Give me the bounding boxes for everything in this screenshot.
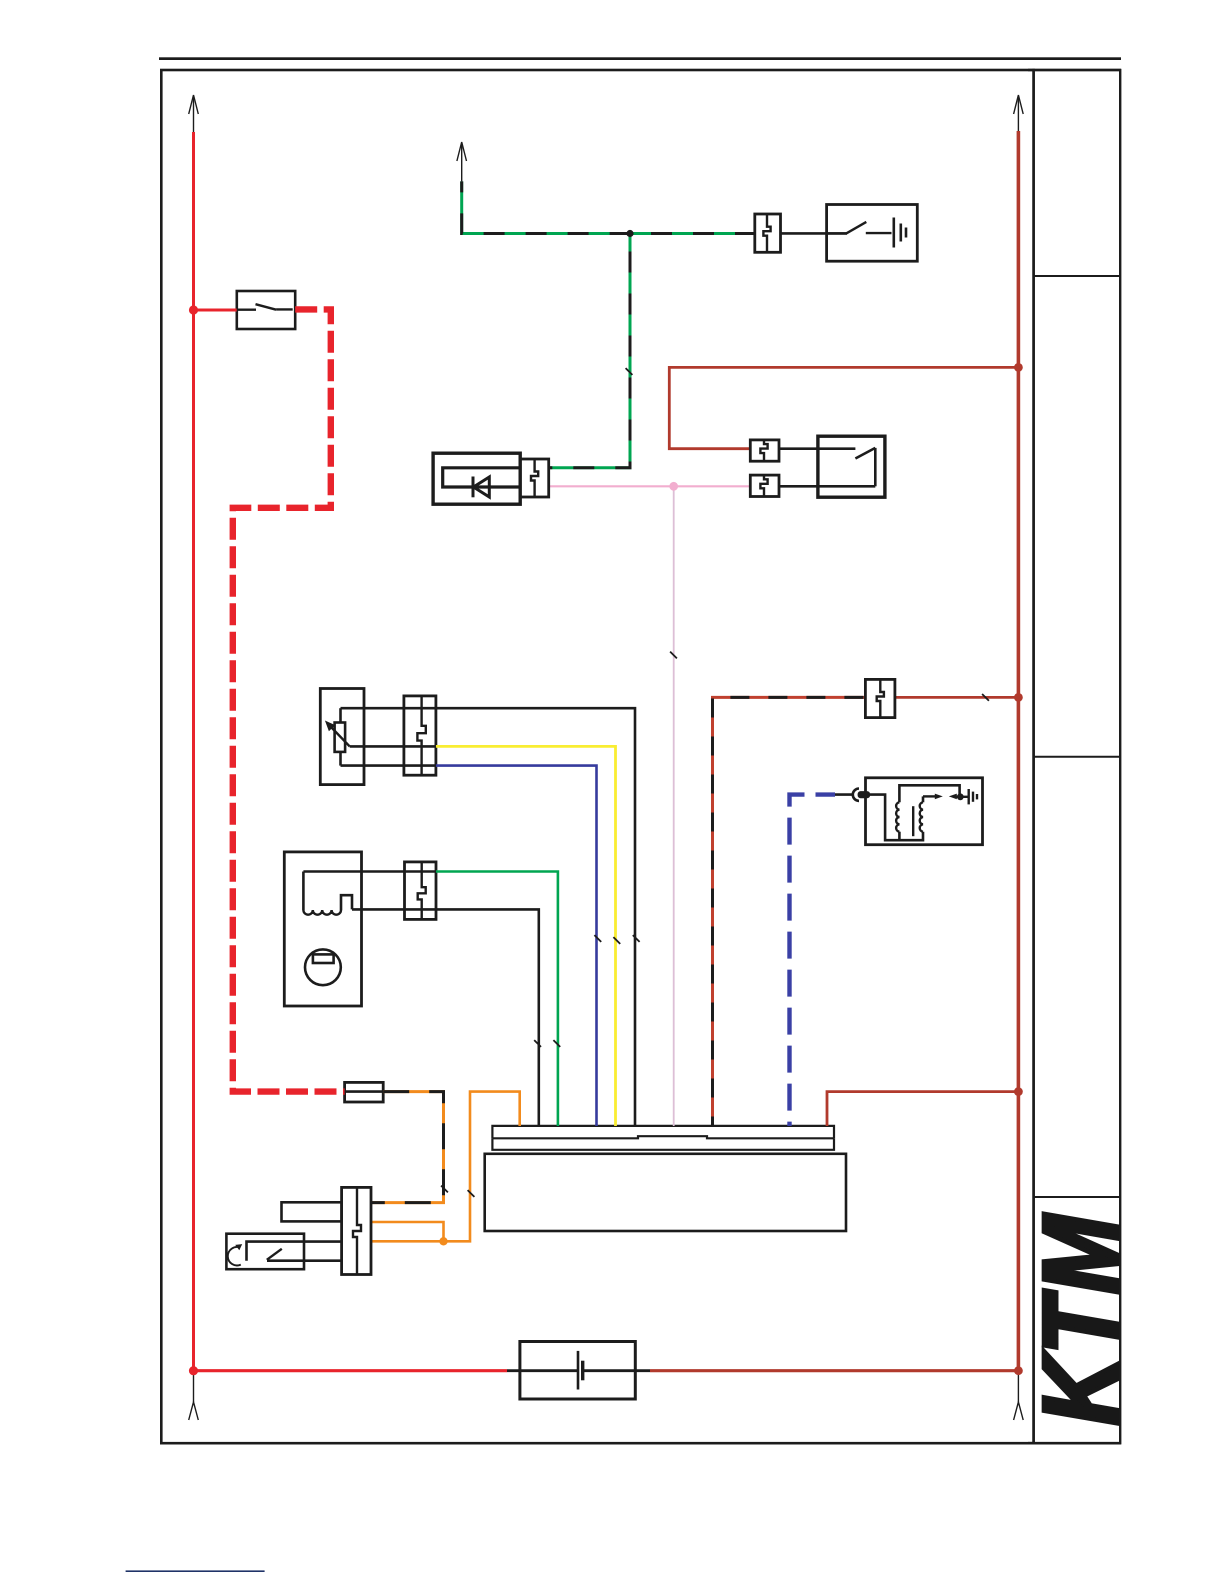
TPS wiper rail xyxy=(350,745,436,748)
wire: black stub start switch bottom xyxy=(779,485,875,488)
connector X-TPS (3 pin) xyxy=(404,696,436,775)
wire: green/black dashed from top arrow to node xyxy=(462,181,630,233)
wire: blue/white dashed ignition trigger xyxy=(790,795,836,1126)
arrow: harness continuation bottom-right xyxy=(1017,1375,1019,1402)
throttle position sensor box xyxy=(320,689,364,785)
node: red branch junction xyxy=(189,305,198,314)
wire: red branch to switch S1 xyxy=(194,309,237,312)
ignition coil top rail xyxy=(899,785,959,802)
wire: TPS pin2 yellow to ECU xyxy=(436,746,616,1126)
switch S1 box (top-left switch) xyxy=(237,291,295,329)
wire: black stub start switch top xyxy=(779,447,855,450)
connector X-pump (2 pin) xyxy=(405,862,437,920)
node: dark red junction 2 xyxy=(1014,693,1023,702)
wire: dark red feed to ECU power xyxy=(827,1092,1018,1126)
ignition coil primary path xyxy=(870,795,923,841)
wire: TPS pin3 blue to ECU xyxy=(436,766,597,1126)
pump motor symbol xyxy=(305,949,341,985)
TPS potentiometer xyxy=(339,708,342,722)
wire: dark red feed to start/stop switch xyxy=(669,367,1018,448)
wire: green/black dashed node to kill-switch connector xyxy=(630,232,755,235)
connector X-stand switch xyxy=(342,1187,371,1274)
TPS wiper arrow xyxy=(331,727,350,746)
arrow: harness continuation bottom-left xyxy=(193,1375,195,1402)
arrow: harness continuation top-right xyxy=(1014,95,1024,114)
wire: orange pin3 through junction to ECU xyxy=(371,1092,520,1242)
wire: battery positive red (bottom left) xyxy=(194,1369,508,1372)
switch S1 contacts xyxy=(237,309,256,311)
connector X-start bottom xyxy=(750,475,779,496)
stand switch actuation arrow xyxy=(228,1247,241,1265)
diode D1 internal loop xyxy=(443,468,521,487)
arrow: harness continuation top-left xyxy=(189,95,199,114)
wire: dark red main, right vertical xyxy=(1017,131,1021,1371)
ECU main body xyxy=(485,1154,846,1231)
wire: red supply, left vertical xyxy=(192,132,195,1371)
clutch/stand switch box (bottom-left) xyxy=(226,1234,304,1270)
sidebar title block xyxy=(1034,70,1121,1443)
wire: dark red feed at ignition node xyxy=(895,696,1019,699)
connector X-start top xyxy=(750,440,779,461)
node: green/black tee xyxy=(626,230,633,237)
ECU connector strip 1 xyxy=(492,1126,834,1138)
decorative footer line xyxy=(126,1570,265,1572)
wire: orange pin2 to junction xyxy=(371,1222,444,1241)
wire: TPS pin1 black to ECU xyxy=(341,708,636,1126)
diode D1 box xyxy=(433,453,520,504)
kill switch box with ground (top right) xyxy=(827,205,918,262)
start/stop switch contact xyxy=(855,448,875,459)
frame/sidebar top edge continuity xyxy=(1028,69,1121,72)
sidebar divider 1 xyxy=(1034,275,1121,277)
sidebar divider 2 xyxy=(1034,756,1121,758)
wire: green/black dashed node down to diode connector xyxy=(549,234,630,468)
start/stop switch box xyxy=(818,436,885,497)
spare terminal rectangle xyxy=(282,1202,342,1221)
KTM logo (rotated) xyxy=(1022,1212,1141,1425)
fuse F1 xyxy=(345,1082,384,1102)
wire: black through fuse to corner xyxy=(371,1092,444,1203)
node: dark red junction 3 xyxy=(1014,1087,1023,1096)
wire: battery stub black right xyxy=(583,1369,651,1372)
battery plates xyxy=(577,1351,580,1390)
connector X-diode xyxy=(521,459,549,497)
node: dark red junction 4 xyxy=(1014,1366,1023,1375)
node: pink tee xyxy=(669,482,678,491)
pump heater coil xyxy=(302,872,305,911)
coil windings xyxy=(896,802,899,831)
ignition coil: spark plug connector xyxy=(853,789,859,801)
ECU connector strip 2 with notch xyxy=(492,1136,834,1138)
wire: black stub to spark plug connector xyxy=(835,793,853,796)
wire: pink from diode connector to start switch connector xyxy=(549,485,751,487)
harness tick marks xyxy=(626,368,633,375)
arrow: harness continuation top-middle xyxy=(457,142,467,161)
sidebar divider 3 xyxy=(1034,1196,1121,1198)
wire: pump pin2 black to ECU xyxy=(352,909,539,1126)
border frame (drawing area) xyxy=(161,70,1033,1443)
spark gap arrows xyxy=(923,795,936,797)
wire: pump pin1 green to ECU xyxy=(303,870,436,873)
coil ground symbol xyxy=(960,796,968,798)
node: orange tee xyxy=(439,1237,447,1245)
svg-text:KTM: KTM xyxy=(1022,1212,1141,1425)
connector X-ignition xyxy=(865,679,895,717)
node: battery positive junction xyxy=(189,1366,198,1375)
diode symbol xyxy=(472,477,475,498)
wire: battery negative dark red (bottom right) xyxy=(650,1369,1018,1372)
stand switch internals xyxy=(247,1242,342,1261)
fuse element xyxy=(345,1090,384,1093)
battery box xyxy=(520,1342,635,1400)
top rule xyxy=(159,57,1121,60)
wire: battery stub black left xyxy=(507,1369,578,1372)
kill switch ground symbol xyxy=(892,218,895,248)
fuel pump / sensor unit box xyxy=(284,852,361,1006)
node: dark red junction 1 xyxy=(1014,363,1023,372)
wire: pink vertical to ECU xyxy=(673,486,675,1126)
ignition coil box xyxy=(866,778,983,845)
kill switch contact arm xyxy=(827,232,847,234)
wire: red/black dashed ignition feed to ECU xyxy=(713,697,866,1126)
wire: black stub kill-switch connector to box xyxy=(781,232,848,235)
connector X-kill switch xyxy=(755,214,781,252)
coil core xyxy=(912,806,914,836)
wire: red/white dashed (switched supply) xyxy=(233,309,345,1091)
